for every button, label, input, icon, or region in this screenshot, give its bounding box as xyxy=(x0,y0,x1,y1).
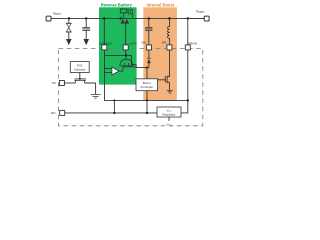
wire: dome output stub xyxy=(125,55,127,59)
pin SW xyxy=(167,45,172,50)
wire: indicator FET source to ground xyxy=(85,83,96,94)
diode D3 boost rectifier xyxy=(147,57,151,59)
ground (boost switch) xyxy=(167,90,173,93)
node bus-controller xyxy=(146,99,148,101)
node rail-C1 xyxy=(85,17,87,19)
zener pair D2 gate clamp xyxy=(121,20,129,24)
wire: SOURCE pin to rail xyxy=(103,18,105,45)
wire: output to VPROT terminal xyxy=(188,17,204,19)
node EN-vertical xyxy=(113,112,115,114)
wire: GATE pin stub xyxy=(125,50,127,56)
pin PG xyxy=(59,81,64,86)
transistor Q boost switch xyxy=(158,76,170,91)
wire: main VBATT rail xyxy=(51,17,204,19)
node rail-FET xyxy=(119,17,121,19)
wire: DRAIN pin to rail xyxy=(187,18,189,45)
wire: dome inner legs xyxy=(125,63,129,66)
capacitor C2 boost xyxy=(145,28,152,30)
svg-text:SW: SW xyxy=(162,41,167,45)
node rail-inductor xyxy=(168,17,170,19)
block: Boost Controller xyxy=(136,79,158,91)
svg-text:EN: EN xyxy=(51,111,55,115)
charge pump driver dome xyxy=(120,59,133,66)
op-amp U1 comparator xyxy=(112,67,119,75)
ground arrow (battery return) TVS xyxy=(66,39,72,45)
pin DRAIN xyxy=(185,45,190,50)
inductor L internal boost xyxy=(168,18,170,45)
node rail-SOURCE xyxy=(103,17,105,19)
highlight zone: Internal Boost (orange) xyxy=(143,7,177,101)
pin GATE xyxy=(123,45,128,50)
node rail-DRAIN xyxy=(187,17,189,19)
transistor Q PG open-drain xyxy=(74,79,86,83)
svg-text:Internal Boost: Internal Boost xyxy=(147,2,175,7)
ground (P/G indicator) xyxy=(91,94,101,98)
junction dots xyxy=(68,17,189,114)
highlight zone: Reverse Battery (green) xyxy=(99,7,137,84)
node boost tap xyxy=(146,67,148,69)
block: P/G Indicator xyxy=(70,62,89,73)
node PG gate xyxy=(79,78,81,80)
TVS diode D1 bidirectional xyxy=(66,23,71,32)
wire: EN line xyxy=(65,112,157,114)
wire: VCC regulator output stub xyxy=(168,117,170,121)
node rail-TVS xyxy=(68,17,70,19)
svg-text:VIN: VIN xyxy=(141,41,146,45)
wire: comparator inputs xyxy=(105,69,112,73)
wire: boost diode branch xyxy=(148,50,150,68)
wire: source sense vertical and GND bus xyxy=(105,50,188,101)
resistor R gate (external FET network) xyxy=(120,9,127,13)
capacitor C1 input xyxy=(82,28,90,30)
svg-text:SOURCE: SOURCE xyxy=(99,41,111,45)
block: VCC Regulator xyxy=(157,107,181,117)
terminal VBATT xyxy=(46,16,51,21)
node bus-right xyxy=(187,99,189,101)
pin VIN xyxy=(146,45,151,50)
transistor Q1 reverse battery FET xyxy=(124,9,133,19)
wire: gate network to GATE pin xyxy=(125,24,127,45)
wire: P/G indicator gate xyxy=(79,73,81,79)
svg-text:VBATT: VBATT xyxy=(53,11,62,16)
svg-text:PG: PG xyxy=(52,81,57,85)
wire: TVS branch xyxy=(68,18,70,39)
svg-text:GATE: GATE xyxy=(129,41,137,45)
wire: logic wire to boost diode node xyxy=(123,65,149,68)
terminal VPROT xyxy=(204,16,209,21)
wire: boost controller top tap xyxy=(146,68,148,79)
svg-text:VCC: VCC xyxy=(167,122,172,126)
node rail-VIN cap xyxy=(148,17,150,19)
wire: EN-to-bus vertical xyxy=(113,100,115,113)
IC package dashed outline xyxy=(59,48,203,125)
svg-text:Indicator: Indicator xyxy=(74,68,86,72)
wire: DRAIN pin down right side xyxy=(187,50,189,101)
svg-text:Reverse Battery: Reverse Battery xyxy=(101,2,133,7)
svg-text:DRAIN: DRAIN xyxy=(188,41,197,45)
svg-text:VPROT: VPROT xyxy=(196,10,206,15)
node EN-controller xyxy=(146,112,148,114)
wire: boost controller bottom to EN line xyxy=(146,91,148,113)
node gate drive xyxy=(125,54,127,56)
pin EN xyxy=(60,110,65,115)
node bus-EN vertical top xyxy=(113,99,115,101)
svg-text:Regulator: Regulator xyxy=(162,113,175,117)
wire: VIN cap branch (orange) xyxy=(148,18,150,45)
wire: PG pin to indicator FET xyxy=(64,82,75,84)
pin SOURCE xyxy=(102,45,107,50)
wire: SW pin to boost switch drain xyxy=(167,50,169,77)
ground arrow (battery return) C1 xyxy=(83,39,89,45)
svg-text:Controller: Controller xyxy=(140,85,153,89)
wire: input cap branch xyxy=(85,18,87,39)
wire: VCC regulator right feed xyxy=(181,100,188,113)
wire: gate drive wire xyxy=(105,55,137,64)
wire: comparator output to driver xyxy=(119,67,123,71)
